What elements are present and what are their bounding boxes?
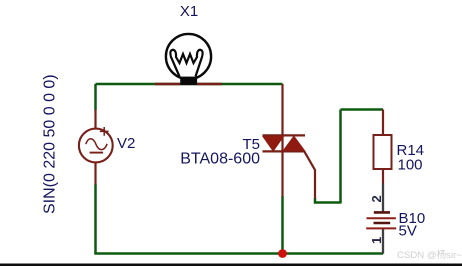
svg-text:100: 100 bbox=[398, 157, 423, 174]
svg-text:CSDN @杨sir~: CSDN @杨sir~ bbox=[397, 249, 462, 261]
wire bbox=[315, 198, 341, 203]
wire bbox=[382, 229, 384, 254]
svg-text:V2: V2 bbox=[117, 135, 135, 152]
wire bbox=[339, 110, 342, 204]
resistor R14 bbox=[374, 110, 392, 184]
svg-text:BTA08-600: BTA08-600 bbox=[180, 151, 260, 168]
svg-text:5V: 5V bbox=[399, 223, 417, 240]
svg-text:SIN(0 220 50 0 0 0): SIN(0 220 50 0 0 0) bbox=[42, 74, 59, 214]
svg-text:2: 2 bbox=[369, 195, 384, 202]
lamp X1 bbox=[155, 34, 222, 85]
battery B10 bbox=[366, 212, 396, 228]
wire bbox=[94, 252, 383, 255]
wire bbox=[96, 83, 283, 86]
voltage source V2 bbox=[79, 110, 113, 185]
bottom border bbox=[0, 264, 462, 266]
wire bbox=[94, 184, 97, 254]
wire bbox=[94, 84, 97, 110]
wire bbox=[281, 196, 284, 254]
wire bbox=[382, 184, 384, 213]
svg-text:X1: X1 bbox=[180, 3, 198, 20]
svg-text:1: 1 bbox=[369, 237, 384, 244]
triac T5 bbox=[263, 84, 316, 199]
junction bbox=[278, 249, 287, 258]
wire bbox=[341, 108, 384, 111]
